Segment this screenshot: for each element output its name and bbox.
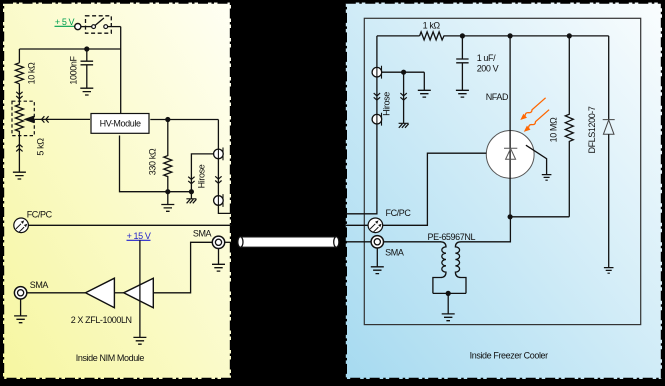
HV-Module box U1 [91, 114, 149, 134]
wire rail down to Hirose right [376, 36, 378, 68]
junction dot chassis node [189, 189, 194, 194]
switch S1 lever [95, 18, 104, 26]
chevrons up into pot bottom [16, 144, 22, 151]
NFAD photodiode D1 circle [486, 131, 534, 179]
transformer T1 primary coil [433, 242, 446, 294]
resistor R3 1k [420, 32, 446, 40]
svg-text:DFLS1200-7: DFLS1200-7 [587, 106, 597, 153]
SMA connector right (left module) [212, 236, 224, 248]
junction dot HV out [165, 117, 170, 122]
NFAD diode symbol [504, 148, 517, 159]
wire HV bottom pin [120, 136, 168, 192]
wire SMA to cable [225, 241, 232, 243]
ground C1 [80, 88, 93, 95]
transformer T1 secondary coil [455, 217, 510, 294]
wire between Hirose pins [217, 158, 219, 196]
svg-text:5 kΩ: 5 kΩ [36, 138, 46, 156]
wire Hirose1 down [376, 77, 378, 115]
wire SMA down to ground [376, 248, 378, 267]
fiber wire to edge [28, 224, 231, 226]
ground C2 [456, 90, 469, 97]
amplifier A2 (right) [124, 278, 154, 308]
chevrons on that wire [188, 177, 194, 184]
top rail wire [377, 35, 609, 37]
potentiometer wiper arrow [23, 116, 34, 124]
ground transformer [442, 314, 455, 321]
wire Hirose1 to bias node [382, 71, 425, 73]
chevrons below Hirose1 [374, 93, 380, 100]
circuit board outline box [364, 18, 640, 324]
diode D2 symbol [603, 120, 615, 135]
terminal +5V [75, 24, 81, 30]
wire SMA to transformer [384, 241, 442, 243]
chevrons on bias down wire [400, 93, 406, 100]
wire A2 in from SMA right [153, 242, 212, 292]
svg-text:Hirose: Hirose [382, 92, 392, 116]
node +5V underline [55, 25, 76, 27]
svg-text:1000nF: 1000nF [69, 56, 79, 85]
svg-text:FC/PC: FC/PC [385, 208, 411, 218]
switch S1 contacts [92, 25, 96, 29]
junction dot bias [401, 70, 406, 75]
wire HV out down to Hirose [217, 120, 219, 150]
coax cable left end [238, 237, 243, 248]
bottom rail wire [510, 216, 569, 218]
ground R2 [161, 205, 174, 212]
svg-text:SMA: SMA [30, 280, 49, 290]
svg-text:+ 5 V: + 5 V [55, 17, 75, 27]
wire R2 bottom to ground [167, 192, 169, 205]
svg-text:10 kΩ: 10 kΩ [27, 62, 37, 84]
svg-text:200 V: 200 V [477, 64, 499, 74]
svg-text:1 kΩ: 1 kΩ [423, 20, 441, 30]
ground SMA right [212, 264, 225, 271]
svg-text:Hirose: Hirose [197, 164, 207, 188]
+15V supply line [139, 240, 141, 337]
svg-text:SMA: SMA [193, 228, 212, 238]
wire pot bottom to ground [18, 136, 20, 173]
coax cable body [240, 237, 336, 248]
wire transformer to ground [447, 293, 449, 314]
svg-text:2 X ZFL-1000LN: 2 X ZFL-1000LN [71, 315, 132, 325]
wire top rail y49 [19, 48, 120, 50]
Hirose connector pin 1 (left) [214, 148, 224, 161]
fiber wire in from edge [346, 224, 369, 226]
junction dot 10M [567, 33, 572, 38]
wire Hirose2 down and out left [346, 124, 377, 214]
wire wiper to HV-Module [34, 118, 90, 120]
Hirose connector pin 2 (left) [214, 194, 224, 207]
wire terminal to switch [81, 26, 92, 28]
diode D2 DFLS1200-7 wire top [608, 36, 610, 120]
capacitor C1 1000nF [81, 49, 94, 88]
junction dot transformer [446, 291, 451, 296]
Freezer cooler enclosure (blue) [346, 3, 662, 380]
svg-text:NFAD: NFAD [486, 92, 509, 102]
junction dot at C1 top [84, 46, 89, 51]
chevrons between pins [215, 176, 221, 183]
ground +15V line [133, 337, 146, 344]
diode D2 wire bottom to ground [608, 134, 610, 267]
wire Hirose to module edge [218, 205, 231, 214]
+15V underline [127, 239, 151, 241]
ground SMA left [14, 316, 27, 323]
wire to resistor R1 [18, 49, 20, 63]
junction dot cap [460, 33, 465, 38]
photon arrow 2 [524, 110, 549, 132]
svg-text:+ 15 V: + 15 V [127, 231, 151, 241]
ground SMA right module [371, 267, 384, 274]
wire coax in from edge [346, 241, 372, 243]
svg-text:HV-Module: HV-Module [100, 119, 141, 129]
Hirose connector pin 2 (right) [372, 113, 382, 126]
junction dot NFAD [508, 33, 513, 38]
wire up to Hirose pin 1 [191, 154, 214, 192]
junction dot bottom rail [508, 214, 513, 219]
svg-text:1 uF/: 1 uF/ [477, 53, 496, 63]
switch S1 dashed box [86, 16, 112, 33]
wire R1 to pot [18, 84, 20, 101]
NIM module enclosure (yellow) [3, 3, 231, 380]
wire bias down to chassis [403, 72, 405, 123]
resistor R1 10k zigzag [15, 63, 23, 84]
potentiometer P1 element [15, 101, 23, 135]
ground pot [13, 172, 26, 179]
FC/PC connector right [368, 218, 383, 233]
capacitor C2 1uF [456, 36, 468, 90]
wire down to chassis ground [190, 192, 192, 199]
wire through NFAD [509, 36, 511, 217]
wire to chassis node [168, 191, 192, 193]
wire +5V down to HV-Module [120, 27, 122, 114]
wire A1 out to SMA [27, 292, 86, 294]
svg-text:330 kΩ: 330 kΩ [148, 148, 158, 175]
chevrons on wiper wire [42, 116, 49, 122]
wire switch to corner [108, 26, 121, 28]
NFAD cathode lead diagonal to ground [526, 145, 547, 174]
wire SMA to ground [20, 299, 22, 316]
svg-text:SMA: SMA [385, 248, 404, 258]
wire SMA down [218, 249, 220, 265]
photon arrow 1 [520, 98, 545, 120]
potentiometer P1 dashed box [12, 101, 34, 135]
FC/PC connector left [14, 218, 29, 233]
svg-text:PE-65967NL: PE-65967NL [428, 232, 476, 242]
junction dot R2 bottom [165, 189, 170, 194]
wire between amps [114, 292, 123, 294]
ground NFAD lead [542, 175, 552, 181]
wire to ground right of bias [423, 72, 425, 90]
chassis ground [186, 199, 196, 204]
fiber wire FC/PC to NFAD [383, 153, 487, 225]
coax cable right end [334, 237, 339, 248]
SMA connector left-bottom [14, 287, 26, 299]
wire HV out right [150, 119, 218, 121]
SMA connector right module [371, 236, 383, 248]
Hirose connector pin 1 (right) [372, 66, 382, 79]
resistor R4 10M [565, 36, 573, 217]
ground D2 [604, 268, 614, 274]
chassis ground right [399, 123, 409, 128]
ground bias [418, 90, 431, 97]
svg-text:Inside Freezer Cooler: Inside Freezer Cooler [470, 351, 549, 361]
chevrons into pot top [16, 92, 22, 99]
amplifier A1 (left) [86, 278, 115, 308]
transformer bottom link [433, 292, 466, 294]
svg-text:10 MΩ: 10 MΩ [549, 117, 559, 142]
resistor R2 330k [164, 120, 172, 192]
svg-text:Inside NIM Module: Inside NIM Module [76, 353, 145, 363]
svg-text:FC/PC: FC/PC [27, 210, 53, 220]
